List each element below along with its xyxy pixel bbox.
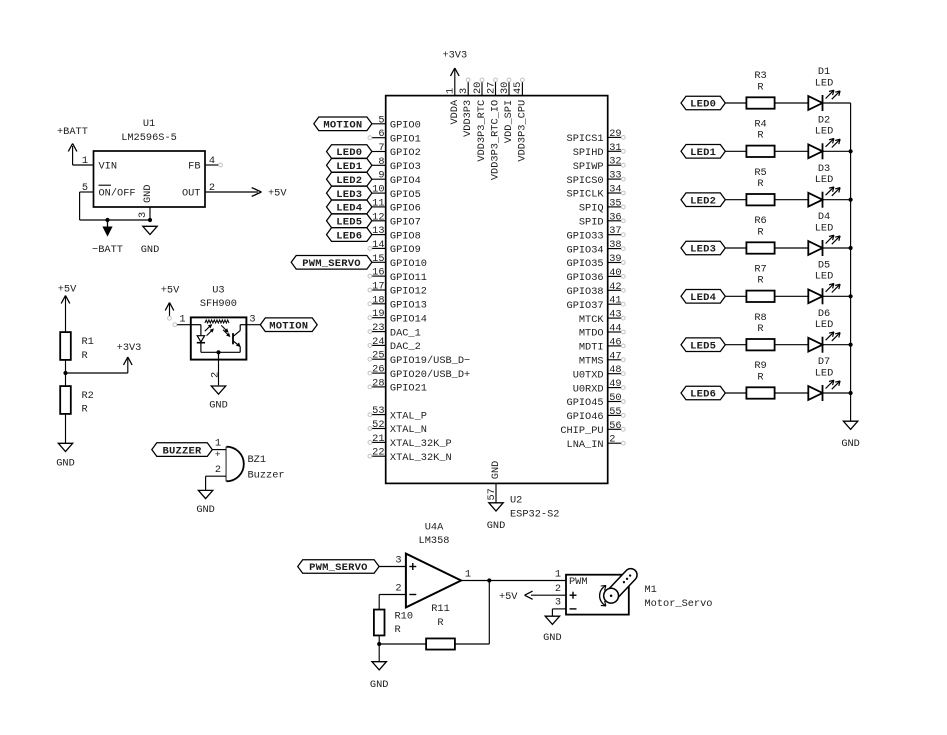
svg-text:GPIO20/USB_D+: GPIO20/USB_D+	[390, 369, 470, 381]
svg-text:GPIO21: GPIO21	[390, 383, 427, 395]
svg-text:R: R	[437, 617, 443, 629]
svg-text:LM358: LM358	[419, 535, 450, 547]
svg-text:30: 30	[499, 82, 511, 94]
svg-text:+BATT: +BATT	[57, 126, 88, 138]
svg-text:29: 29	[609, 128, 621, 140]
svg-text:24: 24	[372, 336, 384, 348]
svg-text:SPICS1: SPICS1	[567, 133, 604, 145]
svg-text:32: 32	[609, 156, 621, 168]
svg-text:SPIWP: SPIWP	[573, 161, 604, 173]
svg-text:D4: D4	[818, 211, 830, 223]
svg-text:MTCK: MTCK	[579, 314, 605, 326]
svg-text:+3V3: +3V3	[117, 342, 142, 354]
svg-text:9: 9	[378, 170, 384, 182]
svg-text:1: 1	[82, 155, 88, 167]
svg-text:LED5: LED5	[336, 217, 362, 229]
svg-text:VDD3P3: VDD3P3	[462, 100, 474, 137]
svg-text:VDD3P3_RTC: VDD3P3_RTC	[476, 100, 488, 162]
svg-text:GND: GND	[141, 244, 160, 256]
svg-text:17: 17	[372, 281, 384, 293]
svg-text:52: 52	[372, 419, 384, 431]
svg-text:PWM_SERVO: PWM_SERVO	[309, 562, 368, 574]
svg-text:GPIO11: GPIO11	[390, 272, 427, 284]
svg-text:39: 39	[609, 253, 621, 265]
svg-text:+3V3: +3V3	[442, 50, 467, 62]
svg-text:U3: U3	[212, 285, 224, 297]
svg-text:LM2596S-5: LM2596S-5	[121, 132, 177, 144]
svg-text:GND: GND	[370, 679, 389, 691]
svg-text:12: 12	[372, 211, 384, 223]
svg-text:U4A: U4A	[425, 522, 444, 534]
svg-text:VDD_SPI: VDD_SPI	[503, 100, 515, 143]
svg-text:GPIO13: GPIO13	[390, 300, 427, 312]
svg-text:VIN: VIN	[99, 161, 118, 173]
svg-text:18: 18	[372, 294, 384, 306]
svg-text:GPIO8: GPIO8	[390, 230, 421, 242]
svg-text:1: 1	[179, 314, 185, 326]
svg-text:2: 2	[609, 434, 615, 446]
svg-text:3: 3	[458, 88, 470, 94]
svg-text:XTAL_32K_N: XTAL_32K_N	[390, 452, 452, 464]
svg-text:7: 7	[378, 142, 384, 154]
svg-text:48: 48	[609, 364, 621, 376]
svg-text:−BATT: −BATT	[92, 244, 123, 256]
svg-text:GPIO35: GPIO35	[567, 258, 604, 270]
svg-text:38: 38	[609, 239, 621, 251]
svg-text:20: 20	[472, 82, 484, 94]
svg-text:13: 13	[372, 225, 384, 237]
svg-text:3: 3	[137, 212, 149, 218]
svg-text:R8: R8	[754, 312, 766, 324]
svg-text:GPIO4: GPIO4	[390, 175, 421, 187]
svg-text:R4: R4	[754, 119, 766, 131]
svg-text:42: 42	[609, 281, 621, 293]
svg-text:R: R	[757, 81, 763, 93]
svg-text:+5V: +5V	[268, 188, 287, 200]
svg-text:3: 3	[249, 314, 255, 326]
svg-text:LNA_IN: LNA_IN	[567, 439, 604, 451]
svg-text:3: 3	[555, 597, 561, 609]
svg-text:40: 40	[609, 267, 621, 279]
svg-text:41: 41	[609, 295, 621, 307]
svg-text:49: 49	[609, 378, 621, 390]
svg-text:GND: GND	[490, 461, 502, 480]
svg-text:+5V: +5V	[58, 284, 77, 296]
svg-text:SFH900: SFH900	[200, 298, 237, 310]
svg-text:U0TXD: U0TXD	[573, 369, 604, 381]
svg-text:SPICLK: SPICLK	[567, 189, 605, 201]
svg-text:R: R	[757, 323, 763, 335]
svg-text:D5: D5	[818, 259, 830, 271]
svg-text:+5V: +5V	[161, 285, 180, 297]
svg-text:34: 34	[609, 184, 621, 196]
svg-text:GPIO37: GPIO37	[567, 300, 604, 312]
svg-text:5: 5	[82, 182, 88, 194]
svg-text:36: 36	[609, 211, 621, 223]
svg-text:M1: M1	[645, 584, 657, 596]
svg-text:21: 21	[372, 433, 384, 445]
svg-text:GPIO2: GPIO2	[390, 147, 421, 159]
svg-text:56: 56	[609, 420, 621, 432]
svg-text:ON/OFF: ON/OFF	[99, 188, 136, 200]
svg-text:2: 2	[209, 182, 215, 194]
svg-text:GND: GND	[142, 184, 154, 203]
svg-text:6: 6	[378, 128, 384, 140]
svg-text:GPIO38: GPIO38	[567, 286, 604, 298]
svg-text:R: R	[395, 624, 401, 636]
svg-text:LED1: LED1	[336, 161, 362, 173]
svg-text:50: 50	[609, 392, 621, 404]
svg-text:MOTION: MOTION	[323, 120, 362, 132]
svg-text:44: 44	[609, 323, 621, 335]
svg-text:R1: R1	[82, 336, 94, 348]
svg-text:MOTION: MOTION	[269, 320, 308, 332]
svg-text:R6: R6	[754, 215, 766, 227]
svg-text:MTDO: MTDO	[579, 328, 604, 340]
svg-text:MTMS: MTMS	[579, 356, 604, 368]
svg-text:LED: LED	[815, 222, 834, 234]
svg-text:GND: GND	[196, 504, 215, 516]
svg-text:14: 14	[372, 239, 384, 251]
svg-text:GPIO9: GPIO9	[390, 244, 421, 256]
svg-text:R: R	[82, 350, 88, 362]
svg-text:+5V: +5V	[499, 591, 518, 603]
svg-text:VDD3P3_CPU: VDD3P3_CPU	[516, 100, 528, 162]
svg-text:LED0: LED0	[336, 147, 362, 159]
svg-text:GND: GND	[56, 458, 75, 470]
svg-text:R10: R10	[395, 611, 414, 623]
svg-text:GPIO1: GPIO1	[390, 133, 421, 145]
svg-text:GPIO5: GPIO5	[390, 189, 421, 201]
svg-text:19: 19	[372, 308, 384, 320]
svg-text:R: R	[757, 275, 763, 287]
svg-text:DAC_1: DAC_1	[390, 327, 421, 339]
svg-text:R2: R2	[82, 390, 94, 402]
svg-text:57: 57	[486, 488, 498, 500]
svg-text:LED3: LED3	[336, 189, 362, 201]
svg-text:2: 2	[395, 582, 401, 594]
svg-text:OUT: OUT	[182, 188, 201, 200]
svg-text:LED: LED	[815, 126, 834, 138]
svg-text:XTAL_32K_P: XTAL_32K_P	[390, 438, 452, 450]
svg-text:46: 46	[609, 336, 621, 348]
svg-text:GPIO7: GPIO7	[390, 217, 421, 229]
svg-text:LED4: LED4	[336, 203, 362, 215]
svg-text:GPIO45: GPIO45	[567, 397, 604, 409]
svg-text:R: R	[757, 371, 763, 383]
svg-text:SPIQ: SPIQ	[579, 203, 604, 215]
svg-text:23: 23	[372, 322, 384, 334]
svg-text:28: 28	[372, 377, 384, 389]
svg-text:U0RXD: U0RXD	[573, 383, 604, 395]
svg-text:25: 25	[372, 350, 384, 362]
svg-text:D7: D7	[818, 356, 830, 368]
svg-text:SPID: SPID	[579, 217, 604, 229]
svg-text:11: 11	[372, 197, 384, 209]
svg-text:GPIO34: GPIO34	[567, 244, 604, 256]
svg-text:4: 4	[209, 155, 215, 167]
svg-text:1: 1	[215, 438, 221, 450]
svg-text:37: 37	[609, 225, 621, 237]
svg-text:GPIO33: GPIO33	[567, 230, 604, 242]
svg-text:GPIO46: GPIO46	[567, 411, 604, 423]
svg-text:VDDA: VDDA	[449, 99, 461, 125]
svg-text:22: 22	[372, 447, 384, 459]
svg-text:+: +	[215, 449, 221, 460]
svg-text:R: R	[82, 404, 88, 416]
svg-text:16: 16	[372, 267, 384, 279]
svg-text:GPIO19/USB_D−: GPIO19/USB_D−	[390, 355, 470, 367]
svg-text:GND: GND	[487, 520, 506, 532]
svg-text:R5: R5	[754, 167, 766, 179]
svg-text:53: 53	[372, 405, 384, 417]
svg-text:LED: LED	[815, 319, 834, 331]
svg-text:BUZZER: BUZZER	[163, 445, 203, 457]
svg-text:D2: D2	[818, 114, 830, 126]
svg-text:SPIHD: SPIHD	[573, 147, 604, 159]
svg-text:LED5: LED5	[690, 340, 716, 352]
svg-text:GPIO3: GPIO3	[390, 161, 421, 173]
svg-text:LED2: LED2	[690, 195, 716, 207]
svg-text:LED6: LED6	[690, 389, 716, 401]
svg-text:2: 2	[555, 583, 561, 595]
svg-text:1: 1	[465, 568, 471, 580]
svg-text:PWM_SERVO: PWM_SERVO	[302, 258, 361, 270]
svg-text:GPIO14: GPIO14	[390, 313, 427, 325]
svg-text:LED1: LED1	[690, 147, 716, 159]
svg-text:GND: GND	[841, 438, 860, 450]
svg-text:MDTI: MDTI	[579, 342, 604, 354]
svg-text:33: 33	[609, 170, 621, 182]
svg-text:D3: D3	[818, 163, 830, 175]
svg-text:XTAL_P: XTAL_P	[390, 410, 427, 422]
svg-text:VDD3P3_RTC_IO: VDD3P3_RTC_IO	[490, 100, 502, 180]
svg-text:LED0: LED0	[690, 99, 716, 111]
svg-text:D6: D6	[818, 308, 830, 320]
svg-text:R: R	[757, 130, 763, 142]
svg-text:LED6: LED6	[336, 230, 362, 242]
svg-text:GPIO12: GPIO12	[390, 286, 427, 298]
svg-text:GND: GND	[543, 632, 562, 644]
svg-text:10: 10	[372, 184, 384, 196]
svg-text:35: 35	[609, 197, 621, 209]
svg-text:CHIP_PU: CHIP_PU	[560, 425, 603, 437]
svg-text:ESP32-S2: ESP32-S2	[510, 509, 559, 521]
svg-text:LED: LED	[815, 367, 834, 379]
svg-text:DAC_2: DAC_2	[390, 341, 421, 353]
svg-text:R: R	[757, 226, 763, 238]
svg-text:FB: FB	[188, 161, 200, 173]
svg-text:U2: U2	[510, 495, 522, 507]
svg-text:2: 2	[215, 464, 221, 476]
svg-text:GPIO6: GPIO6	[390, 203, 421, 215]
svg-text:BZ1: BZ1	[248, 454, 267, 466]
svg-text:GPIO0: GPIO0	[390, 120, 421, 132]
svg-text:XTAL_N: XTAL_N	[390, 424, 427, 436]
svg-text:D1: D1	[818, 66, 830, 78]
svg-text:GPIO36: GPIO36	[567, 272, 604, 284]
svg-text:LED2: LED2	[336, 175, 362, 187]
svg-text:2: 2	[210, 372, 222, 378]
svg-text:PWM: PWM	[569, 576, 588, 588]
svg-text:R9: R9	[754, 360, 766, 372]
svg-text:GPIO10: GPIO10	[390, 258, 427, 270]
svg-text:1: 1	[445, 88, 457, 94]
svg-text:LED4: LED4	[690, 292, 716, 304]
svg-text:SPICS0: SPICS0	[567, 175, 604, 187]
svg-text:U1: U1	[143, 118, 155, 130]
svg-text:1: 1	[555, 568, 561, 580]
svg-text:Buzzer: Buzzer	[248, 470, 285, 482]
svg-text:LED: LED	[815, 174, 834, 186]
svg-text:R: R	[757, 178, 763, 190]
svg-text:47: 47	[609, 350, 621, 362]
svg-text:R3: R3	[754, 70, 766, 82]
svg-text:8: 8	[378, 156, 384, 168]
svg-text:R7: R7	[754, 264, 766, 276]
svg-text:31: 31	[609, 142, 621, 154]
svg-text:27: 27	[485, 82, 497, 94]
svg-text:15: 15	[372, 253, 384, 265]
svg-text:LED3: LED3	[690, 244, 716, 256]
svg-text:5: 5	[378, 114, 384, 126]
svg-text:LED: LED	[815, 271, 834, 283]
svg-text:55: 55	[609, 406, 621, 418]
svg-text:R11: R11	[431, 603, 450, 615]
svg-text:LED: LED	[815, 77, 834, 89]
svg-text:43: 43	[609, 309, 621, 321]
svg-text:45: 45	[512, 82, 524, 94]
svg-text:Motor_Servo: Motor_Servo	[645, 598, 713, 610]
svg-text:GND: GND	[209, 400, 228, 412]
svg-text:26: 26	[372, 364, 384, 376]
svg-text:3: 3	[395, 554, 401, 566]
